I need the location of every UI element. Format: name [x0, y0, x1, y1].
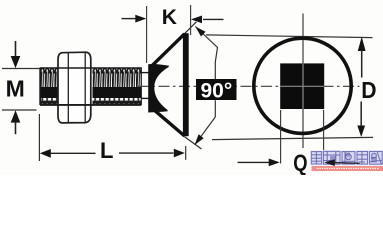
svg-text:90°: 90°	[201, 79, 233, 102]
svg-text:K: K	[162, 6, 177, 29]
svg-text:Q: Q	[293, 150, 307, 175]
svg-text:L: L	[100, 138, 113, 163]
svg-text:M: M	[6, 76, 25, 102]
svg-text:D: D	[361, 77, 376, 103]
